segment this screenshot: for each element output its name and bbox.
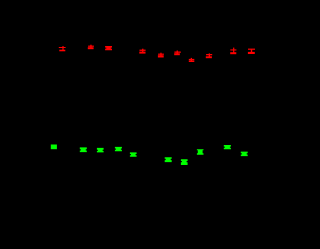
red errorbar marker R6 (174, 51, 181, 56)
red errorbar marker R2 (88, 45, 94, 50)
green candlestick marker G3 (97, 148, 104, 153)
red errorbar marker R3 (105, 46, 112, 50)
green candlestick marker G10 (241, 152, 248, 157)
green candlestick marker G6 (165, 157, 172, 162)
green candlestick marker G7 (181, 159, 188, 165)
green candlestick marker G5 (130, 152, 137, 156)
red errorbar marker R5 (158, 53, 164, 58)
red errorbar marker R4 (139, 49, 145, 54)
red errorbar marker R8 (206, 53, 212, 58)
red errorbar marker R7 (189, 58, 195, 62)
green candlestick marker G4 (115, 147, 122, 151)
red errorbar marker R10 (248, 49, 255, 54)
green candlestick marker G2 (80, 147, 87, 152)
green candlestick marker G1 (51, 145, 57, 150)
red errorbar marker R9 (230, 48, 236, 55)
red errorbar marker R1 (59, 46, 66, 51)
green candlestick marker G8 (197, 149, 204, 155)
green candlestick marker G9 (224, 145, 231, 149)
